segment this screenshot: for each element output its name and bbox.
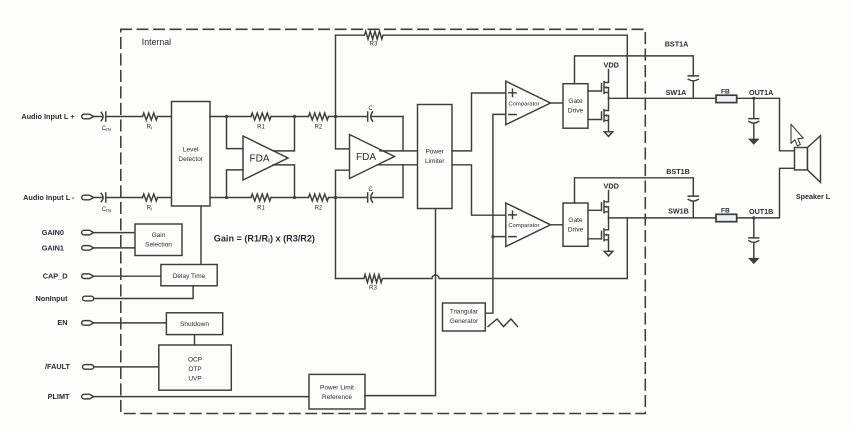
capacitor C bottom [336, 187, 404, 202]
wire C top to FDA2 output [402, 117, 404, 151]
wire C bottom to FDA2 output [402, 165, 404, 198]
svg-text:R1: R1 [257, 124, 265, 130]
svg-text:SW1A: SW1A [666, 88, 687, 97]
wire power limit reference to power limiter [365, 209, 436, 396]
wire NonInput to delay time [94, 286, 193, 299]
shutdown box [166, 313, 222, 335]
svg-text:Speaker L: Speaker L [796, 192, 831, 201]
wire L+ input [94, 116, 172, 118]
wire /FAULT [94, 366, 159, 368]
node carrier junction [491, 235, 494, 238]
pin EN [57, 318, 93, 327]
svg-text:Detector: Detector [178, 156, 203, 163]
transistor Q3 high-side B [588, 191, 609, 218]
wire triangle carrier to comparator minus inputs [485, 114, 506, 313]
svg-text:Audio Input L -: Audio Input L - [23, 193, 75, 202]
svg-text:FB: FB [721, 207, 730, 214]
svg-text:FDA: FDA [356, 152, 376, 163]
svg-text:OUT1B: OUT1B [749, 207, 773, 216]
wire FDA1 inputs [227, 117, 244, 198]
svg-text:CIN: CIN [102, 126, 112, 133]
svg-text:R1: R1 [257, 205, 265, 211]
svg-text:SW1B: SW1B [668, 206, 689, 215]
capacitor CIN top [101, 112, 111, 133]
svg-text:Gain = (R1/Ri) x (R3/R2): Gain = (R1/Ri) x (R3/R2) [214, 233, 315, 244]
level detector U1 [172, 102, 211, 207]
wire power limiter to comparator2 [452, 165, 506, 215]
svg-text:Comparator: Comparator [508, 101, 539, 107]
pin PLIMT [48, 392, 94, 401]
triangle wave symbol [488, 319, 518, 327]
svg-text:Audio Input L +: Audio Input L + [21, 112, 74, 121]
svg-text:PLIMT: PLIMT [48, 392, 70, 401]
triangular generator box [443, 303, 486, 331]
VDD label A [603, 61, 618, 70]
svg-text:Reference: Reference [322, 394, 352, 401]
wire OUT1B to speaker [737, 168, 795, 218]
wire shutdown to OCP [194, 335, 196, 345]
svg-text:Power: Power [425, 148, 444, 155]
svg-text:Generator: Generator [450, 318, 478, 325]
wire CAP_D [94, 275, 161, 277]
wire power limiter to comparator1 [452, 93, 506, 151]
ferrite bead FB B [716, 207, 737, 221]
OCP OTP UVP box [159, 345, 232, 390]
capacitor BST1A [688, 76, 698, 98]
svg-text:CIN: CIN [102, 207, 112, 214]
svg-text:C: C [368, 106, 373, 112]
svg-text:EN: EN [57, 318, 67, 327]
svg-text:Internal: Internal [142, 37, 171, 47]
gate drive U6 [563, 203, 588, 246]
ground B [604, 251, 613, 256]
svg-text:Level: Level [183, 147, 199, 154]
resistor Ri top [143, 113, 158, 131]
svg-text:Selection: Selection [145, 242, 172, 249]
power limiter box [418, 105, 453, 209]
svg-text:OTP: OTP [188, 366, 201, 373]
transistor Q4 low-side B [588, 218, 609, 251]
wire node C' vertical to FDA2 lower input [336, 170, 350, 278]
resistor R2 top [309, 113, 329, 130]
wire EN [94, 322, 167, 324]
wire comparator2 to gate drive2 [551, 224, 564, 226]
node OUT1A junction [752, 97, 755, 100]
svg-text:CAP_D: CAP_D [43, 272, 68, 281]
svg-text:/FAULT: /FAULT [45, 362, 71, 371]
pin /FAULT [45, 362, 94, 371]
node A junctions [225, 115, 228, 199]
mouse cursor [791, 124, 803, 146]
svg-text:OCP: OCP [188, 356, 202, 363]
svg-text:R3: R3 [370, 40, 378, 47]
svg-text:R2: R2 [315, 124, 323, 130]
pin GAIN1 [42, 243, 94, 252]
wire FDA2 outputs to power limiter [378, 151, 418, 165]
svg-text:UVP: UVP [188, 375, 201, 382]
delay time box [161, 265, 217, 286]
svg-text:VDD: VDD [603, 182, 618, 191]
label SW1A [666, 88, 687, 97]
svg-text:Shutdown: Shutdown [180, 321, 209, 328]
power limit reference box [309, 374, 365, 409]
wire FDA1 feedback outputs [273, 117, 295, 198]
svg-text:FB: FB [721, 88, 730, 95]
svg-text:Comparator: Comparator [508, 223, 539, 229]
resistor R3 bottom with wire and hop [336, 218, 628, 292]
label Internal [142, 37, 171, 47]
label BST1A [665, 40, 689, 49]
ground OUT1A [749, 139, 759, 144]
pin GAIN0 [42, 228, 94, 237]
wire BST1A bootstrap [575, 56, 694, 84]
svg-text:Triangular: Triangular [450, 309, 478, 316]
wire GAIN0 [94, 232, 135, 234]
transistor Q1 high-side A [588, 70, 609, 99]
capacitor C top [336, 106, 404, 121]
svg-text:Ri: Ri [147, 206, 152, 212]
label OUT1B [749, 207, 773, 216]
svg-text:R2: R2 [315, 205, 323, 211]
wire level detector to delay time [200, 206, 202, 265]
node C junctions [334, 115, 337, 199]
resistor R2 bottom [309, 194, 329, 211]
pin Audio Input L- [23, 193, 94, 202]
wire top audio line [210, 116, 336, 118]
gain formula [214, 233, 315, 244]
resistor R1 top [251, 113, 271, 130]
svg-text:BST1A: BST1A [665, 40, 689, 49]
resistor R1 bottom [251, 194, 271, 211]
wire GAIN1 [94, 247, 135, 249]
wire SW1B [609, 217, 717, 219]
svg-text:Delay Time: Delay Time [173, 273, 206, 280]
pin NonInput [35, 294, 93, 303]
svg-text:OUT1A: OUT1A [749, 88, 773, 97]
label OUT1A [749, 88, 773, 97]
wire PLIMT [94, 396, 309, 398]
label SW1B [668, 206, 689, 215]
transistor Q2 low-side A [588, 98, 609, 132]
wire SW1A [609, 97, 717, 99]
capacitor OUT1A filter [749, 98, 759, 139]
wire L- input [94, 197, 172, 199]
pin CAP_D [43, 272, 94, 281]
svg-text:Limiter: Limiter [425, 158, 445, 165]
svg-text:Gate: Gate [568, 217, 583, 224]
svg-text:Gain: Gain [152, 232, 166, 239]
op-amp FDA1 [243, 136, 288, 180]
svg-text:R3: R3 [369, 285, 377, 292]
svg-text:Power Limit: Power Limit [320, 385, 354, 392]
label BST1B [666, 167, 690, 176]
ground OUT1B [749, 258, 759, 263]
ground A [604, 132, 613, 137]
comparator U4 [506, 203, 551, 247]
svg-text:Drive: Drive [568, 227, 584, 234]
resistor Ri bottom [143, 194, 158, 212]
ferrite bead FB A [716, 88, 737, 102]
svg-text:GAIN0: GAIN0 [42, 228, 64, 237]
svg-text:NonInput: NonInput [35, 294, 68, 303]
capacitor BST1B [688, 196, 698, 218]
comparator U3 [506, 81, 551, 125]
node OUT1B junction [752, 216, 755, 219]
svg-text:C: C [368, 187, 373, 193]
speaker L [795, 136, 831, 202]
svg-text:GAIN1: GAIN1 [42, 243, 64, 252]
gain selection box [135, 224, 182, 256]
wire node C vertical to FDA2 upper input [336, 35, 350, 149]
gate drive U5 [563, 84, 588, 129]
wire OUT1A to speaker [737, 98, 795, 151]
wire BST1B bootstrap [575, 178, 694, 203]
capacitor OUT1B filter [749, 218, 759, 258]
resistor R3 top with wire [336, 31, 628, 98]
svg-text:Drive: Drive [568, 108, 584, 115]
svg-text:VDD: VDD [603, 61, 618, 70]
internal dashed boundary [121, 29, 646, 413]
wire comparator1 to gate drive1 [551, 102, 564, 104]
svg-text:FDA: FDA [250, 154, 270, 165]
svg-text:Gate: Gate [568, 98, 583, 105]
node B junctions [293, 115, 296, 199]
op-amp FDA2 [350, 135, 395, 179]
VDD label B [603, 182, 618, 191]
wire bottom audio line [210, 197, 336, 199]
svg-text:BST1B: BST1B [666, 167, 690, 176]
pin Audio Input L+ [21, 112, 93, 121]
svg-text:Ri: Ri [147, 125, 152, 131]
capacitor CIN bottom [101, 193, 111, 214]
